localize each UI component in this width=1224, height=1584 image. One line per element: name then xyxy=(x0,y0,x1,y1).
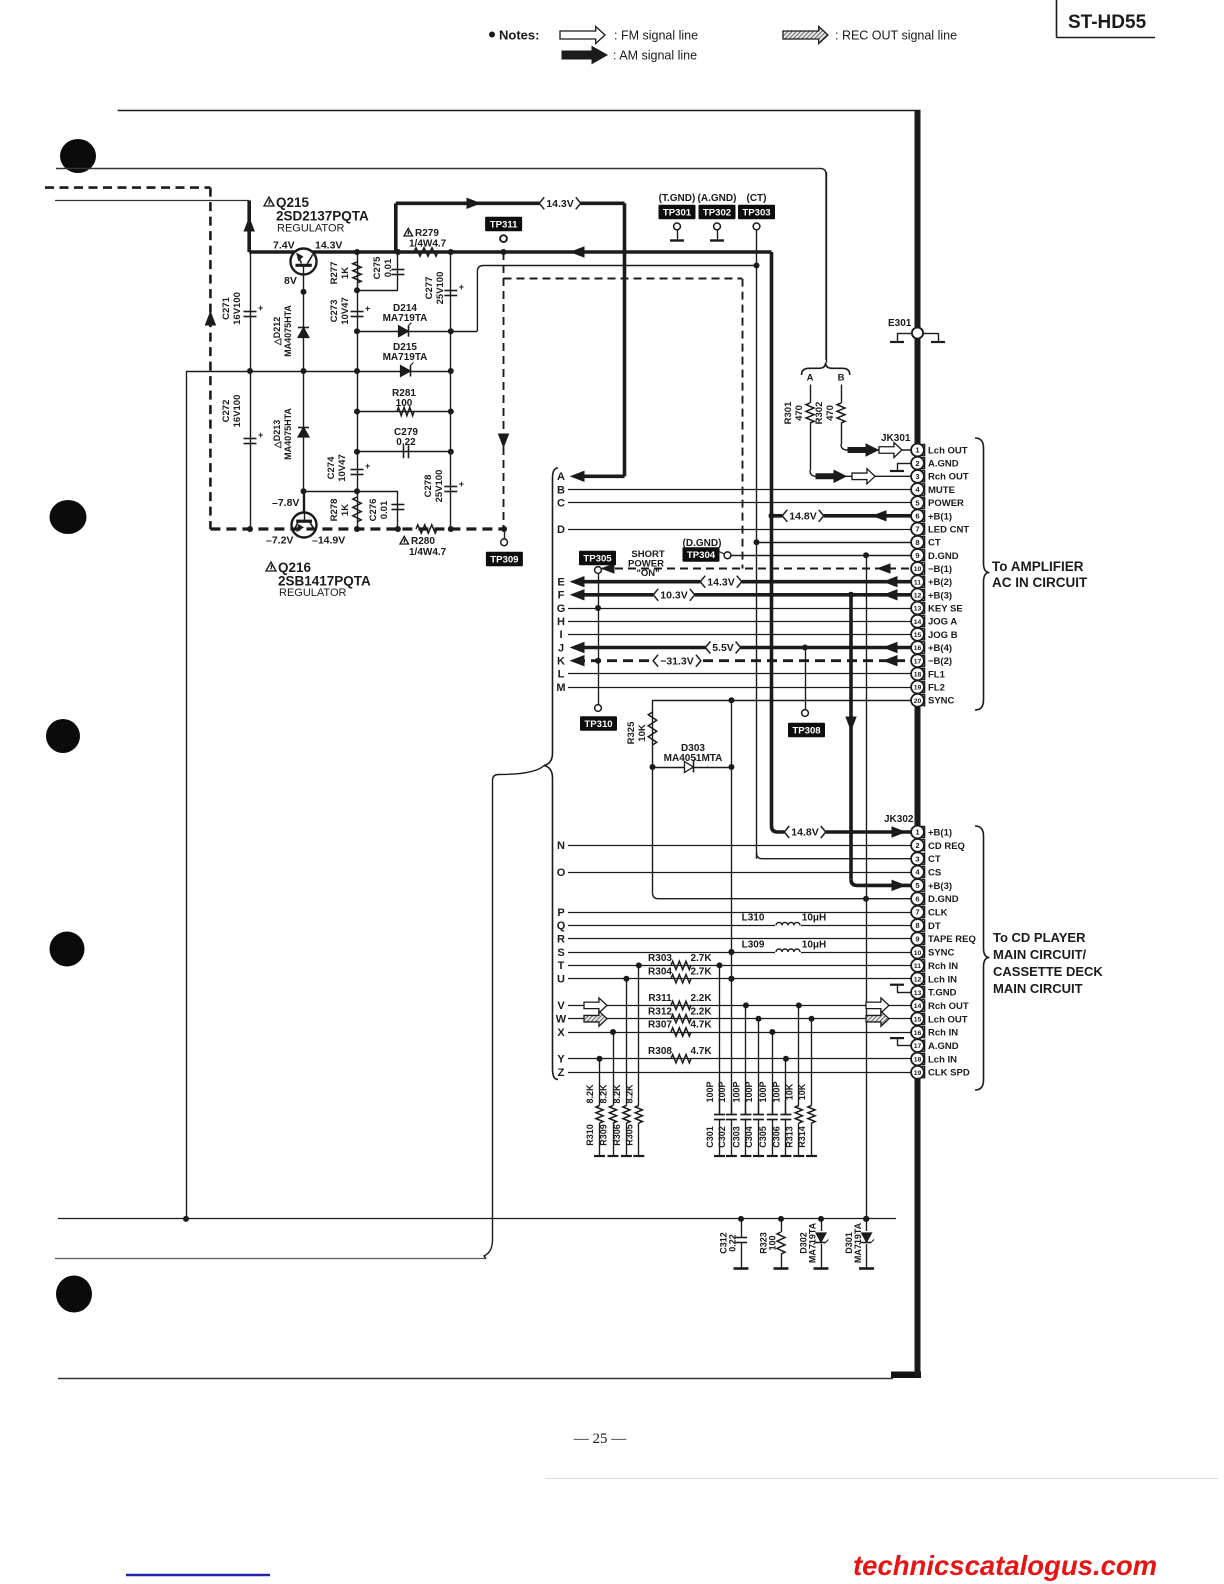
svg-text:R305: R305 xyxy=(624,1124,634,1146)
svg-text:−B(1): −B(1) xyxy=(928,564,952,575)
svg-text:D.GND: D.GND xyxy=(928,894,959,905)
svg-text:7: 7 xyxy=(915,525,919,534)
svg-text:18: 18 xyxy=(914,671,922,678)
svg-text:14.8V: 14.8V xyxy=(789,510,816,522)
svg-text:+: + xyxy=(459,479,464,489)
svg-text:9: 9 xyxy=(915,934,919,943)
svg-text:1K: 1K xyxy=(340,504,351,516)
svg-text:+B(3): +B(3) xyxy=(928,590,952,601)
svg-text:+B(1): +B(1) xyxy=(928,827,952,838)
svg-text:T.GND: T.GND xyxy=(928,988,957,999)
svg-text:10.3V: 10.3V xyxy=(660,589,687,601)
svg-text:6: 6 xyxy=(915,511,919,520)
svg-text:TP310: TP310 xyxy=(584,719,612,730)
svg-text:R304: R304 xyxy=(648,967,672,978)
svg-text:0.22: 0.22 xyxy=(396,437,416,448)
svg-text:R306: R306 xyxy=(612,1124,622,1146)
svg-text:TP305: TP305 xyxy=(583,554,612,565)
svg-text:Rch IN: Rch IN xyxy=(928,1028,958,1039)
svg-text:0.01: 0.01 xyxy=(379,500,390,519)
svg-text:R: R xyxy=(557,934,565,946)
svg-text:2.7K: 2.7K xyxy=(690,953,712,964)
svg-text:1/4W4.7: 1/4W4.7 xyxy=(409,547,447,558)
svg-text:C273: C273 xyxy=(329,300,340,323)
svg-text:MAIN CIRCUIT/: MAIN CIRCUIT/ xyxy=(993,947,1087,962)
svg-text:B: B xyxy=(557,484,565,496)
svg-text:— 25 —: — 25 — xyxy=(573,1431,628,1447)
svg-text:CT: CT xyxy=(928,538,941,549)
svg-text:AC IN CIRCUIT: AC IN CIRCUIT xyxy=(992,575,1088,590)
svg-text:Rch IN: Rch IN xyxy=(928,961,958,972)
svg-text:470: 470 xyxy=(825,405,836,421)
svg-text:REGULATOR: REGULATOR xyxy=(279,587,346,599)
svg-text:TP308: TP308 xyxy=(792,726,821,737)
svg-text:8V: 8V xyxy=(284,275,297,287)
svg-text:11: 11 xyxy=(914,579,921,586)
svg-text:100P: 100P xyxy=(758,1081,768,1102)
svg-text:100P: 100P xyxy=(731,1081,741,1102)
svg-text:R308: R308 xyxy=(648,1046,672,1057)
svg-text:MUTE: MUTE xyxy=(928,485,955,496)
svg-text:Y: Y xyxy=(557,1054,565,1066)
svg-text:8.2K: 8.2K xyxy=(585,1084,595,1104)
svg-text:10K: 10K xyxy=(797,1083,807,1100)
svg-text:R312: R312 xyxy=(648,1007,672,1018)
svg-text:C302: C302 xyxy=(717,1126,727,1148)
svg-text:15: 15 xyxy=(914,1017,922,1024)
svg-text:9: 9 xyxy=(915,551,919,560)
svg-text:+: + xyxy=(365,461,370,471)
svg-text:Rch OUT: Rch OUT xyxy=(928,472,969,483)
svg-text:470: 470 xyxy=(794,405,805,421)
svg-text:TP301: TP301 xyxy=(663,208,692,219)
svg-text:100P: 100P xyxy=(717,1081,727,1102)
svg-text:17: 17 xyxy=(914,1043,922,1050)
svg-text:14.8V: 14.8V xyxy=(791,827,818,839)
svg-text:SYNC: SYNC xyxy=(928,948,955,959)
svg-text:7.4V: 7.4V xyxy=(273,240,295,252)
svg-text:M: M xyxy=(556,682,565,694)
svg-text:10: 10 xyxy=(914,950,922,957)
svg-text:100P: 100P xyxy=(771,1081,781,1102)
svg-text:19: 19 xyxy=(914,685,922,692)
svg-text:P: P xyxy=(557,907,564,919)
svg-text:C: C xyxy=(557,498,565,510)
svg-text:10V47: 10V47 xyxy=(340,297,351,324)
svg-text:A.GND: A.GND xyxy=(928,459,959,470)
svg-text:MA719TA: MA719TA xyxy=(808,1222,818,1263)
svg-text:4.7K: 4.7K xyxy=(690,1046,712,1057)
svg-text:Lch OUT: Lch OUT xyxy=(928,1014,968,1025)
svg-text:0.01: 0.01 xyxy=(383,258,394,277)
svg-text:3: 3 xyxy=(915,854,919,863)
svg-text:A: A xyxy=(807,373,814,384)
svg-text:MA4051MTA: MA4051MTA xyxy=(664,753,723,764)
svg-text:14.3V: 14.3V xyxy=(546,198,573,210)
svg-text:E: E xyxy=(557,577,564,589)
svg-text:100P: 100P xyxy=(705,1081,715,1102)
svg-text:−B(2): −B(2) xyxy=(928,656,952,667)
svg-text:DT: DT xyxy=(928,921,941,932)
svg-text:A.GND: A.GND xyxy=(928,1041,959,1052)
svg-text:100: 100 xyxy=(396,398,413,409)
svg-text:C277: C277 xyxy=(424,277,435,300)
svg-text:25V100: 25V100 xyxy=(434,470,445,503)
svg-text:+: + xyxy=(459,282,464,292)
svg-text:25V100: 25V100 xyxy=(435,272,446,305)
svg-text:: FM signal line: : FM signal line xyxy=(614,29,698,43)
svg-text:CASSETTE DECK: CASSETTE DECK xyxy=(993,964,1103,979)
svg-text:1/4W4.7: 1/4W4.7 xyxy=(409,239,447,250)
svg-text:T: T xyxy=(558,960,565,972)
svg-text:K: K xyxy=(557,656,565,668)
svg-text:2SD2137PQTA: 2SD2137PQTA xyxy=(276,209,369,224)
svg-text:G: G xyxy=(557,603,566,615)
svg-text:12: 12 xyxy=(914,976,922,983)
svg-text:R307: R307 xyxy=(648,1020,672,1031)
svg-text:CLK SPD: CLK SPD xyxy=(928,1068,970,1079)
svg-text:–7.8V: –7.8V xyxy=(272,497,299,509)
svg-text:O: O xyxy=(557,867,566,879)
svg-text:C274: C274 xyxy=(326,456,337,479)
svg-text:C304: C304 xyxy=(744,1126,754,1148)
svg-text:–7.2V: –7.2V xyxy=(266,535,293,547)
svg-text:(CT): (CT) xyxy=(747,193,767,204)
svg-text:X: X xyxy=(557,1027,565,1039)
svg-text:+: + xyxy=(258,430,263,440)
svg-text:C303: C303 xyxy=(731,1126,741,1148)
svg-text:7: 7 xyxy=(915,908,919,917)
svg-text:MA4075HTA: MA4075HTA xyxy=(283,408,293,460)
svg-text:CS: CS xyxy=(928,867,941,878)
svg-text:R280: R280 xyxy=(411,536,435,547)
svg-text:8.2K: 8.2K xyxy=(612,1084,622,1104)
svg-text:TP311: TP311 xyxy=(490,220,518,231)
svg-text:2.2K: 2.2K xyxy=(690,993,712,1004)
svg-text:14.3V: 14.3V xyxy=(707,576,734,588)
svg-text:Rch OUT: Rch OUT xyxy=(928,1001,969,1012)
svg-text:8.2K: 8.2K xyxy=(599,1084,609,1104)
svg-text:12: 12 xyxy=(914,592,922,599)
svg-text:D: D xyxy=(557,524,565,536)
svg-text:16V100: 16V100 xyxy=(232,395,243,428)
svg-text:JK302: JK302 xyxy=(884,814,914,825)
svg-text:C305: C305 xyxy=(758,1126,768,1148)
svg-text:TP303: TP303 xyxy=(742,208,770,219)
svg-text:+B(1): +B(1) xyxy=(928,511,952,522)
svg-text:JOG B: JOG B xyxy=(928,630,958,641)
svg-text:△D213: △D213 xyxy=(272,420,282,449)
svg-text:10μH: 10μH xyxy=(802,913,826,924)
svg-text:8.2K: 8.2K xyxy=(624,1084,634,1104)
svg-text:TP309: TP309 xyxy=(490,555,518,566)
svg-text:18: 18 xyxy=(914,1057,922,1064)
svg-text:JK301: JK301 xyxy=(881,433,911,444)
svg-text:2.2K: 2.2K xyxy=(690,1007,712,1018)
svg-text:J: J xyxy=(558,642,564,654)
svg-text:17: 17 xyxy=(914,658,922,665)
svg-text:L309: L309 xyxy=(742,940,765,951)
svg-text:8: 8 xyxy=(915,538,919,547)
svg-text:(A.GND): (A.GND) xyxy=(698,193,737,204)
svg-text:C276: C276 xyxy=(368,499,379,522)
svg-text:SYNC: SYNC xyxy=(928,696,955,707)
svg-text:L310: L310 xyxy=(742,913,765,924)
svg-text:Lch IN: Lch IN xyxy=(928,974,957,985)
svg-text:Z: Z xyxy=(558,1067,565,1079)
svg-text:FL1: FL1 xyxy=(928,669,946,680)
svg-text:R277: R277 xyxy=(329,262,340,285)
svg-text:14.3V: 14.3V xyxy=(315,240,342,252)
svg-text:20: 20 xyxy=(914,698,922,705)
svg-text:MA719TA: MA719TA xyxy=(383,313,428,324)
svg-text:11: 11 xyxy=(914,963,921,970)
svg-text:E301: E301 xyxy=(888,318,912,329)
svg-text:R303: R303 xyxy=(648,953,672,964)
svg-text:10K: 10K xyxy=(637,724,648,742)
svg-text:Lch OUT: Lch OUT xyxy=(928,445,968,456)
svg-text:A: A xyxy=(557,471,565,483)
svg-text:technicscatalogus.com: technicscatalogus.com xyxy=(853,1550,1157,1581)
svg-text:2.7K: 2.7K xyxy=(690,967,712,978)
svg-text:W: W xyxy=(556,1014,567,1026)
svg-text:△D212: △D212 xyxy=(272,317,282,346)
svg-text:3: 3 xyxy=(915,472,919,481)
svg-text:MA4075HTA: MA4075HTA xyxy=(283,305,293,357)
svg-text:CLK: CLK xyxy=(928,908,948,919)
svg-text:To CD PLAYER: To CD PLAYER xyxy=(993,930,1086,945)
svg-text:C272: C272 xyxy=(221,400,232,423)
svg-text:+: + xyxy=(258,303,263,313)
svg-text:CD REQ: CD REQ xyxy=(928,841,965,852)
svg-text:REGULATOR: REGULATOR xyxy=(277,223,344,235)
svg-text:S: S xyxy=(557,947,564,959)
svg-text:10V47: 10V47 xyxy=(337,454,348,481)
svg-text:+B(4): +B(4) xyxy=(928,643,952,654)
svg-text:10: 10 xyxy=(914,566,922,573)
svg-text:1K: 1K xyxy=(340,267,351,279)
svg-text:100P: 100P xyxy=(744,1081,754,1102)
svg-text:6: 6 xyxy=(915,894,919,903)
svg-text:C278: C278 xyxy=(423,475,434,498)
svg-text:: AM signal line: : AM signal line xyxy=(613,49,697,63)
svg-text:TAPE REQ: TAPE REQ xyxy=(928,934,976,945)
svg-text:5.5V: 5.5V xyxy=(712,642,734,654)
svg-text:C271: C271 xyxy=(221,296,232,319)
svg-text:KEY SE: KEY SE xyxy=(928,603,963,614)
svg-text:B: B xyxy=(838,373,845,384)
svg-text:(T.GND): (T.GND) xyxy=(659,193,696,204)
svg-text:U: U xyxy=(557,974,565,986)
svg-text:To AMPLIFIER: To AMPLIFIER xyxy=(992,559,1084,574)
svg-text:13: 13 xyxy=(914,990,922,997)
svg-text:R278: R278 xyxy=(329,499,340,522)
svg-text:MA719TA: MA719TA xyxy=(853,1222,863,1263)
svg-text:ST-HD55: ST-HD55 xyxy=(1068,12,1147,33)
svg-text:TP302: TP302 xyxy=(703,208,731,219)
svg-text:TP304: TP304 xyxy=(687,550,716,561)
svg-text:–14.9V: –14.9V xyxy=(312,535,345,547)
svg-text:100: 100 xyxy=(768,1235,778,1250)
svg-text:POWER: POWER xyxy=(928,498,964,509)
svg-text:8: 8 xyxy=(915,921,919,930)
svg-text:MAIN CIRCUIT: MAIN CIRCUIT xyxy=(993,981,1083,996)
svg-text:V: V xyxy=(557,1000,565,1012)
svg-text:Lch IN: Lch IN xyxy=(928,1054,957,1065)
svg-text:F: F xyxy=(558,590,565,602)
svg-text:2: 2 xyxy=(915,459,919,468)
svg-text:0.22: 0.22 xyxy=(728,1234,738,1252)
svg-text:R313: R313 xyxy=(784,1126,794,1148)
svg-text:D.GND: D.GND xyxy=(928,551,959,562)
svg-text:−31.3V: −31.3V xyxy=(660,655,694,667)
svg-text:Notes:: Notes: xyxy=(499,28,539,43)
svg-text:R325: R325 xyxy=(626,721,637,744)
svg-text:16: 16 xyxy=(914,1030,922,1037)
svg-text:2: 2 xyxy=(915,841,919,850)
svg-text:+: + xyxy=(365,304,370,314)
svg-text:MA719TA: MA719TA xyxy=(383,352,428,363)
svg-text:L: L xyxy=(558,669,565,681)
svg-text:13: 13 xyxy=(914,606,922,613)
svg-text:14: 14 xyxy=(914,1003,922,1010)
svg-text:16: 16 xyxy=(914,645,922,652)
svg-text:C306: C306 xyxy=(771,1126,781,1148)
svg-text:16V100: 16V100 xyxy=(232,292,243,325)
svg-text:10K: 10K xyxy=(784,1083,794,1100)
svg-text:JOG A: JOG A xyxy=(928,617,957,628)
svg-text:N: N xyxy=(557,840,565,852)
svg-text:+B(3): +B(3) xyxy=(928,881,952,892)
svg-text:R311: R311 xyxy=(648,993,672,1004)
svg-text:15: 15 xyxy=(914,632,922,639)
svg-text:19: 19 xyxy=(914,1070,922,1077)
svg-text:C275: C275 xyxy=(372,256,383,279)
svg-text:10μH: 10μH xyxy=(802,940,826,951)
svg-text:R310: R310 xyxy=(585,1124,595,1146)
svg-text:R301: R301 xyxy=(783,401,794,424)
svg-text:H: H xyxy=(557,616,565,628)
svg-text:Q: Q xyxy=(557,920,566,932)
svg-text:14: 14 xyxy=(914,619,922,626)
svg-text:LED CNT: LED CNT xyxy=(928,524,969,535)
svg-text:FL2: FL2 xyxy=(928,682,945,693)
svg-text:R314: R314 xyxy=(797,1126,807,1148)
svg-text:"ON": "ON" xyxy=(636,568,659,579)
svg-text:: REC OUT signal line: : REC OUT signal line xyxy=(835,29,957,43)
svg-text:4.7K: 4.7K xyxy=(690,1020,712,1031)
svg-text:CT: CT xyxy=(928,854,941,865)
svg-text:R279: R279 xyxy=(415,228,439,239)
svg-text:R309: R309 xyxy=(599,1124,609,1146)
svg-text:C301: C301 xyxy=(705,1126,715,1148)
svg-text:R302: R302 xyxy=(814,402,825,425)
svg-text:I: I xyxy=(559,629,562,641)
svg-text:+B(2): +B(2) xyxy=(928,577,952,588)
